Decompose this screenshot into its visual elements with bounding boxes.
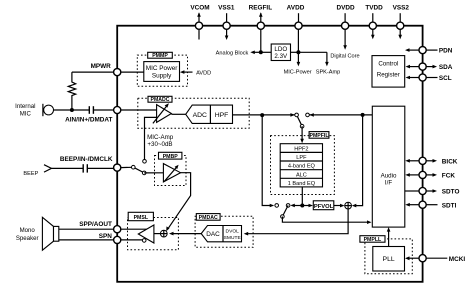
svg-text:MPWR: MPWR (91, 63, 112, 70)
svg-text:MIC Power: MIC Power (146, 65, 178, 72)
svg-text:ALC: ALC (296, 172, 307, 178)
svg-text:Supply: Supply (152, 73, 172, 80)
svg-text:2.3V: 2.3V (274, 53, 288, 60)
svg-text:BEEP/IN-/DMCLK: BEEP/IN-/DMCLK (60, 156, 113, 163)
svg-text:BICK: BICK (442, 158, 458, 165)
svg-text:PMBP: PMBP (163, 154, 179, 160)
svg-text:MIC: MIC (20, 111, 32, 118)
svg-text:PMDAC: PMDAC (199, 215, 218, 221)
svg-text:PMPLL: PMPLL (364, 237, 382, 243)
svg-text:Speaker: Speaker (16, 235, 39, 242)
svg-text:PMMP: PMMP (152, 53, 168, 59)
svg-text:DVDD: DVDD (337, 5, 355, 12)
svg-text:I/F: I/F (385, 180, 392, 187)
svg-text:+30~0dB: +30~0dB (147, 141, 172, 148)
svg-text:LDO: LDO (274, 46, 287, 53)
svg-text:4-band EQ: 4-band EQ (288, 164, 316, 170)
svg-text:SPN: SPN (99, 233, 113, 240)
svg-text:Analog Block: Analog Block (216, 50, 249, 56)
svg-text:PMSL: PMSL (134, 215, 149, 221)
svg-text:MIC-Power: MIC-Power (284, 69, 312, 75)
svg-text:SDA: SDA (439, 64, 453, 71)
svg-text:AVDD: AVDD (196, 71, 211, 77)
svg-text:Control: Control (378, 60, 398, 67)
svg-text:PMPFIL: PMPFIL (309, 133, 329, 139)
svg-text:Mono: Mono (20, 227, 36, 234)
svg-text:PFVOL: PFVOL (314, 204, 334, 210)
svg-text:PMADC: PMADC (150, 97, 169, 103)
svg-text:1 Band EQ: 1 Band EQ (288, 181, 316, 187)
svg-text:SDTO: SDTO (442, 189, 460, 196)
svg-text:MCKI: MCKI (449, 256, 466, 263)
svg-text:VSS2: VSS2 (393, 5, 410, 12)
svg-text:VSS1: VSS1 (218, 5, 235, 12)
svg-text:LPF: LPF (296, 155, 307, 161)
svg-text:VCOM: VCOM (190, 5, 209, 12)
svg-text:SCL: SCL (439, 75, 452, 82)
svg-text:REGFIL: REGFIL (249, 5, 273, 12)
svg-text:Internal: Internal (15, 103, 35, 110)
svg-text:BEEP: BEEP (23, 171, 38, 177)
svg-text:DVOL: DVOL (226, 229, 240, 235)
svg-text:Digital Core: Digital Core (330, 54, 359, 60)
svg-text:ADC: ADC (193, 112, 207, 119)
svg-text:PDN: PDN (439, 48, 453, 55)
svg-text:Audio: Audio (381, 172, 397, 179)
svg-text:FCK: FCK (442, 173, 456, 180)
svg-text:SDTI: SDTI (442, 202, 457, 209)
svg-text:DAC: DAC (206, 231, 220, 238)
svg-text:HPF: HPF (215, 112, 229, 119)
svg-text:SPK-Amp: SPK-Amp (316, 69, 341, 75)
svg-text:SPP/AOUT: SPP/AOUT (79, 221, 112, 228)
svg-text:HPF2: HPF2 (294, 146, 308, 152)
svg-text:AVDD: AVDD (287, 5, 305, 12)
svg-text:AIN/IN+/DMDAT: AIN/IN+/DMDAT (65, 116, 112, 123)
svg-text:Register: Register (377, 71, 400, 78)
svg-text:SMUTE: SMUTE (224, 235, 242, 241)
svg-text:PLL: PLL (383, 256, 395, 263)
svg-text:MIC-Amp: MIC-Amp (147, 134, 174, 141)
svg-text:TVDD: TVDD (365, 5, 383, 12)
